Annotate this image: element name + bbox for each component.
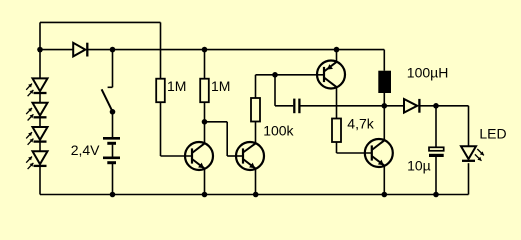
svg-text:10µ: 10µ bbox=[407, 157, 431, 173]
svg-text:100µH: 100µH bbox=[407, 64, 449, 80]
svg-text:1M: 1M bbox=[167, 78, 186, 94]
svg-text:1M: 1M bbox=[211, 78, 230, 94]
svg-text:4,7k: 4,7k bbox=[347, 115, 374, 131]
svg-text:100k: 100k bbox=[263, 122, 294, 138]
svg-text:LED: LED bbox=[479, 125, 506, 141]
svg-text:2,4V: 2,4V bbox=[71, 142, 100, 158]
